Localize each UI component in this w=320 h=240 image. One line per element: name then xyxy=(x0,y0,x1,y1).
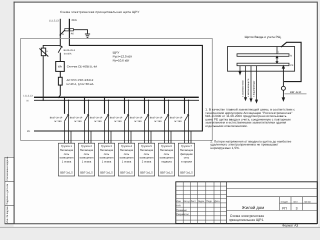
wire PEN riser xyxy=(68,19,70,30)
svg-text:2 этажа: 2 этажа xyxy=(142,160,152,163)
svg-text:ВВГ-3х1,5: ВВГ-3х1,5 xyxy=(100,171,113,174)
svg-text:Счетчик СЕ-НОВ 5L-4А: Счетчик СЕ-НОВ 5L-4А xyxy=(67,64,97,68)
svg-text:N: N xyxy=(27,100,29,103)
svg-text:PE: PE xyxy=(290,64,294,67)
svg-text:Группа 1: Группа 1 xyxy=(61,145,72,148)
svg-text:сеть: сеть xyxy=(124,153,130,156)
svg-text:ВА47-29-1Р: ВА47-29-1Р xyxy=(130,117,143,120)
svg-text:к молниезащите: к молниезащите xyxy=(247,78,250,97)
svg-text:Питающая: Питающая xyxy=(100,149,114,152)
cable ВВГ 4х10 run xyxy=(281,42,301,81)
svg-text:PEN: PEN xyxy=(72,19,77,22)
svg-text:Iн=16А: Iн=16А xyxy=(74,120,82,123)
left margin stamp column xyxy=(5,157,14,224)
svg-text:Группа 7: Группа 7 xyxy=(181,145,192,148)
title block left grid verticals xyxy=(183,182,220,224)
group box 7 xyxy=(178,143,194,176)
ground (re-earthing electrode) xyxy=(85,34,90,38)
svg-text:ВВГ-3х1,5: ВВГ-3х1,5 xyxy=(180,171,193,174)
wire PE drop group 2 xyxy=(90,131,92,143)
svg-text:Группа 6: Группа 6 xyxy=(161,145,172,148)
svg-text:сеть: сеть xyxy=(184,157,190,160)
sheet bottom edge xyxy=(5,223,318,225)
svg-text:Iн=16А: Iн=16А xyxy=(54,120,62,123)
svg-text:1 этажа: 1 этажа xyxy=(102,160,112,163)
link N-PE arrow xyxy=(276,47,278,64)
varistor U1 diagonal xyxy=(39,48,48,56)
svg-text:ВА47-29-1Р: ВА47-29-1Р xyxy=(90,117,103,120)
svg-text:ВА16-26-3: ВА16-26-3 xyxy=(64,49,76,52)
busbar PE xyxy=(237,63,289,65)
svg-text:Лист: Лист xyxy=(293,201,298,204)
breaker label group 7 xyxy=(170,117,183,123)
sheet right edge xyxy=(316,2,318,224)
breaker label group 5 xyxy=(130,117,143,123)
group box 2 xyxy=(78,143,94,176)
breaker QF1 blade xyxy=(59,35,61,47)
sheet top edge xyxy=(14,1,318,3)
breaker QF group 4 (ВА47-29) xyxy=(124,97,129,144)
svg-text:Согласовано подпись: Согласовано подпись xyxy=(6,156,9,181)
notes paragraph 1 xyxy=(205,108,295,129)
svg-text:Группа 5: Группа 5 xyxy=(141,145,152,148)
bus L1,L2,L3 xyxy=(34,97,199,98)
svg-text:Питающая: Питающая xyxy=(80,149,94,152)
svg-text:освещения: освещения xyxy=(60,157,74,160)
svg-text:ВВГ 4х10: ВВГ 4х10 xyxy=(290,91,302,94)
sheet bottom shadow xyxy=(0,227,320,228)
grounding conductor 3 xyxy=(250,66,252,102)
svg-text:Дата: Дата xyxy=(214,200,220,203)
svg-text:Питающая: Питающая xyxy=(180,149,194,152)
wire N drop group 6 xyxy=(168,100,169,144)
label leader line xyxy=(284,93,306,95)
svg-text:1 этажа: 1 этажа xyxy=(82,160,92,163)
breaker QF1 tick xyxy=(61,46,63,47)
node varistor N dot xyxy=(43,100,44,101)
svg-text:Iн=40 А, Iуточ=30 мА: Iн=40 А, Iуточ=30 мА xyxy=(67,82,94,86)
svg-text:Листов: Листов xyxy=(304,201,312,204)
wire PE drop group 6 xyxy=(170,131,172,143)
svg-text:сеть: сеть xyxy=(84,153,90,156)
svg-text:Питающая: Питающая xyxy=(120,149,134,152)
svg-text:Питающая: Питающая xyxy=(60,149,74,152)
svg-text:Группа 3: Группа 3 xyxy=(101,145,112,148)
node PEN split junction xyxy=(69,29,71,31)
svg-text:освещения: освещения xyxy=(140,157,154,160)
svg-text:сеть: сеть xyxy=(144,153,150,156)
wire N drop group 3 xyxy=(108,100,109,144)
RCD АСТРО-УЗО body xyxy=(58,77,62,85)
svg-text:освещения: освещения xyxy=(80,157,94,160)
sheet left edge xyxy=(13,2,15,224)
wire PE branch to earth xyxy=(73,30,87,34)
busbar N xyxy=(237,54,289,57)
svg-text:ВА47-29-1Р: ВА47-29-1Р xyxy=(50,117,63,120)
svg-text:сеть: сеть xyxy=(64,153,70,156)
wire N drop group 5 xyxy=(148,100,149,144)
svg-text:сеть: сеть xyxy=(104,153,110,156)
breaker label group 6 xyxy=(150,117,163,123)
svg-text:Щиток Ввода и учета РЩ,: Щиток Ввода и учета РЩ, xyxy=(245,35,282,39)
grounding conductor 4 xyxy=(256,66,258,103)
wire varistor to N bus xyxy=(42,56,44,100)
svg-text:Iн=16А: Iн=16А xyxy=(134,120,142,123)
sheet left notch (stamp column area) xyxy=(5,156,14,224)
svg-text:Формат А3: Формат А3 xyxy=(282,223,298,227)
svg-text:Iн=16А: Iн=16А xyxy=(174,120,182,123)
group box 1 xyxy=(58,143,74,176)
wire PE pickup with up arrow xyxy=(282,66,284,87)
title block right section lines xyxy=(227,189,318,211)
connector circle xyxy=(281,86,285,90)
notes paragraph 2 xyxy=(210,139,291,150)
svg-text:ВВГ-3х1,5: ВВГ-3х1,5 xyxy=(60,171,73,174)
svg-text:L1,L2,L3: L1,L2,L3 xyxy=(49,19,59,22)
svg-text:ВВГ-3х1,5: ВВГ-3х1,5 xyxy=(80,171,93,174)
title block outer xyxy=(176,182,317,224)
svg-text:Инв. № подлин.: Инв. № подлин. xyxy=(6,205,9,223)
wire PE drop group 7 xyxy=(190,131,192,143)
breaker label group 3 xyxy=(90,117,103,123)
title block left grid horizontals xyxy=(176,186,227,220)
group box 4 xyxy=(118,143,134,176)
wire PE drop group 1 xyxy=(70,131,72,143)
breaker QF group 2 (ВА47-29) xyxy=(84,97,89,144)
svg-text:Проверил: Проверил xyxy=(176,209,187,212)
cable down arrow xyxy=(282,90,284,100)
breaker QF group 6 (ВА47-29) xyxy=(164,97,169,144)
svg-text:освещения: освещения xyxy=(100,157,114,160)
svg-text:Разработал: Разработал xyxy=(176,213,189,216)
svg-text:Wh: Wh xyxy=(58,65,63,69)
wire PE drop group 3 xyxy=(110,131,112,143)
svg-text:подвала: подвала xyxy=(161,160,172,163)
svg-text:ВВГ-3х1,5: ВВГ-3х1,5 xyxy=(140,171,153,174)
box Щиток ввода xyxy=(228,47,295,72)
svg-text:сеть: сеть xyxy=(164,153,170,156)
svg-text:Схема электрическая принципи: Схема электрическая принципиальная щита … xyxy=(60,10,139,14)
svg-text:Iн=40А: Iн=40А xyxy=(64,53,72,56)
grounding conductor labels (rotated) xyxy=(242,78,256,97)
svg-text:1 этажа: 1 этажа xyxy=(62,160,72,163)
group box 5 xyxy=(138,143,154,176)
svg-text:ВА47-29-1Р: ВА47-29-1Р xyxy=(170,117,183,120)
svg-text:ВА47-29-1Р: ВА47-29-1Р xyxy=(150,117,163,120)
svg-text:принципиальная ЩР1.: принципиальная ЩР1. xyxy=(229,218,265,222)
svg-text:Группа 4: Группа 4 xyxy=(121,145,132,148)
svg-text:PE: PE xyxy=(71,33,75,36)
node RCD bus dot xyxy=(58,96,60,98)
svg-text:PE: PE xyxy=(27,130,31,133)
varistor tap wire xyxy=(43,45,60,48)
svg-text:отдельными ответвлениями.: отдельными ответвлениями. xyxy=(205,124,247,128)
breaker QF group 5 (ВА47-29) xyxy=(144,97,149,144)
title block header texts xyxy=(176,200,220,216)
wire N drop group 4 xyxy=(128,100,129,144)
svg-text:L1,L2,L3: L1,L2,L3 xyxy=(23,95,33,98)
svg-text:Подпись и дата см: Подпись и дата см xyxy=(6,184,9,205)
svg-text:ВА47-29-1Р: ВА47-29-1Р xyxy=(70,117,83,120)
wire RCD to bus xyxy=(59,85,60,97)
svg-text:Iн=16А: Iн=16А xyxy=(114,120,122,123)
group box 3 xyxy=(98,143,114,176)
PE conductor routed around panel xyxy=(34,30,202,131)
svg-text:к водопроводу: к водопроводу xyxy=(253,80,256,97)
svg-text:в гараже: в гараже xyxy=(181,160,192,163)
svg-text:к заземлителю: к заземлителю xyxy=(242,80,245,97)
svg-text:Группа 2: Группа 2 xyxy=(81,145,92,148)
svg-text:РП: РП xyxy=(282,206,287,210)
svg-text:Изм.: Изм. xyxy=(176,200,181,203)
grounding conductor 1 xyxy=(239,66,241,75)
svg-text:ГАП: ГАП xyxy=(176,205,181,208)
svg-text:Iн=16А: Iн=16А xyxy=(94,120,102,123)
breaker QF group 3 (ВА47-29) xyxy=(104,97,109,144)
svg-text:Подп.: Подп. xyxy=(206,200,212,203)
breaker label group 1 xyxy=(50,117,63,123)
svg-text:ВВГ-3х1,5: ВВГ-3х1,5 xyxy=(160,171,173,174)
wire N split diagonal xyxy=(60,30,65,35)
breaker label group 4 xyxy=(110,117,123,123)
stamp column rotated captions xyxy=(6,156,9,223)
enclosure outline (light) xyxy=(21,39,213,141)
wire breaker to meter xyxy=(59,53,61,62)
svg-text:Стадия: Стадия xyxy=(281,201,288,204)
svg-text:освещения: освещения xyxy=(120,157,134,160)
breaker label group 2 xyxy=(70,117,83,123)
svg-text:Жилой дом: Жилой дом xyxy=(242,205,264,210)
wire N drop group 7 xyxy=(188,100,189,144)
meter Wh box xyxy=(56,62,65,72)
svg-text:Iн=16А: Iн=16А xyxy=(154,120,162,123)
group box 6 xyxy=(158,143,174,176)
svg-text:Рр=10,6 кВт: Рр=10,6 кВт xyxy=(113,59,130,63)
wire meter to RCD xyxy=(59,71,61,77)
title block stage header xyxy=(281,201,312,204)
svg-text:Питающая: Питающая xyxy=(140,149,154,152)
main grounding bus box xyxy=(65,29,74,31)
wire N drop group 1 xyxy=(68,100,69,144)
breaker QF group 1 (ВА47-29) xyxy=(64,97,69,144)
svg-text:1 этажа: 1 этажа xyxy=(122,160,132,163)
svg-text:№док.: №док. xyxy=(198,200,205,203)
svg-text:ВА47-29-1Р: ВА47-29-1Р xyxy=(110,117,123,120)
varistor U1 body xyxy=(41,48,45,56)
wire PE drop group 5 xyxy=(150,131,152,143)
svg-text:ВВГ-3х1,5: ВВГ-3х1,5 xyxy=(120,171,133,174)
grounding conductor 2 xyxy=(245,66,247,101)
svg-text:3: 3 xyxy=(296,206,298,210)
svg-text:N: N xyxy=(290,54,292,57)
node N join dot xyxy=(60,34,62,36)
bus N xyxy=(34,99,199,101)
breaker QF group 7 (ВА47-29) xyxy=(184,97,189,144)
wire PE drop group 4 xyxy=(130,131,132,143)
svg-text:фасадная: фасадная xyxy=(180,153,193,156)
svg-text:нормируемых 1,5%.: нормируемых 1,5%. xyxy=(210,146,240,150)
svg-text:освещения: освещения xyxy=(160,157,174,160)
wire N drop group 2 xyxy=(88,100,89,144)
wire L feeder top xyxy=(59,19,61,35)
svg-text:Питающая: Питающая xyxy=(160,149,174,152)
